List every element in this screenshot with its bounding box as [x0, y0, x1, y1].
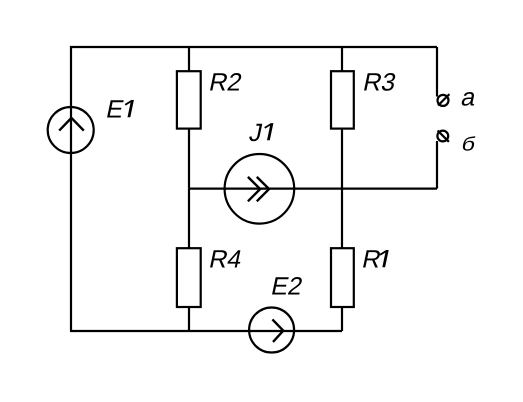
- wire middle horizontal: [189, 188, 437, 190]
- source E1 arrowhead: [59, 118, 84, 131]
- resistor R3: [331, 71, 354, 128]
- svg-text:E: E: [104, 96, 127, 124]
- svg-text:R3: R3: [361, 69, 399, 97]
- wire R2 top stub: [188, 47, 190, 71]
- svg-text:a: a: [459, 84, 480, 112]
- current source J1 circle: [225, 154, 295, 224]
- svg-text:R4: R4: [207, 246, 245, 274]
- wire R1 top stub: [341, 189, 343, 249]
- wire R2 bottom stub: [188, 129, 190, 189]
- terminal a slash: [438, 94, 449, 105]
- label E1 digit 1: [125, 100, 134, 117]
- source E2 circle: [249, 308, 294, 353]
- J1 arrowhead 2: [257, 177, 269, 201]
- svg-text:E2: E2: [269, 273, 305, 301]
- svg-text:б: б: [460, 133, 478, 155]
- wire R4 bottom stub: [188, 307, 190, 331]
- source E2 arrowhead: [272, 319, 283, 342]
- terminal a circle: [438, 95, 449, 106]
- wire terminal b to middle: [436, 141, 438, 189]
- svg-text:R: R: [360, 246, 384, 274]
- wire R3 bottom stub: [341, 129, 343, 189]
- svg-text:R2: R2: [207, 69, 245, 97]
- wire top horizontal: [70, 46, 437, 48]
- source E1 circle: [48, 107, 94, 153]
- resistor R4: [177, 248, 201, 307]
- wire left vertical: [70, 46, 72, 331]
- svg-text:J: J: [247, 119, 265, 147]
- label R1 digit 1: [380, 250, 389, 267]
- resistor R2: [177, 71, 201, 128]
- wire R1 bottom stub: [341, 307, 343, 331]
- wire bottom horizontal: [70, 330, 342, 332]
- wire R3 top stub: [341, 47, 343, 71]
- wire R4 top stub: [188, 189, 190, 249]
- terminal b circle: [437, 131, 448, 142]
- wire right drop to terminal a: [436, 47, 438, 97]
- terminal b slash: [438, 131, 449, 142]
- resistor R1: [331, 248, 354, 307]
- label J1 digit 1: [265, 123, 274, 140]
- J1 arrowhead 1: [248, 177, 260, 201]
